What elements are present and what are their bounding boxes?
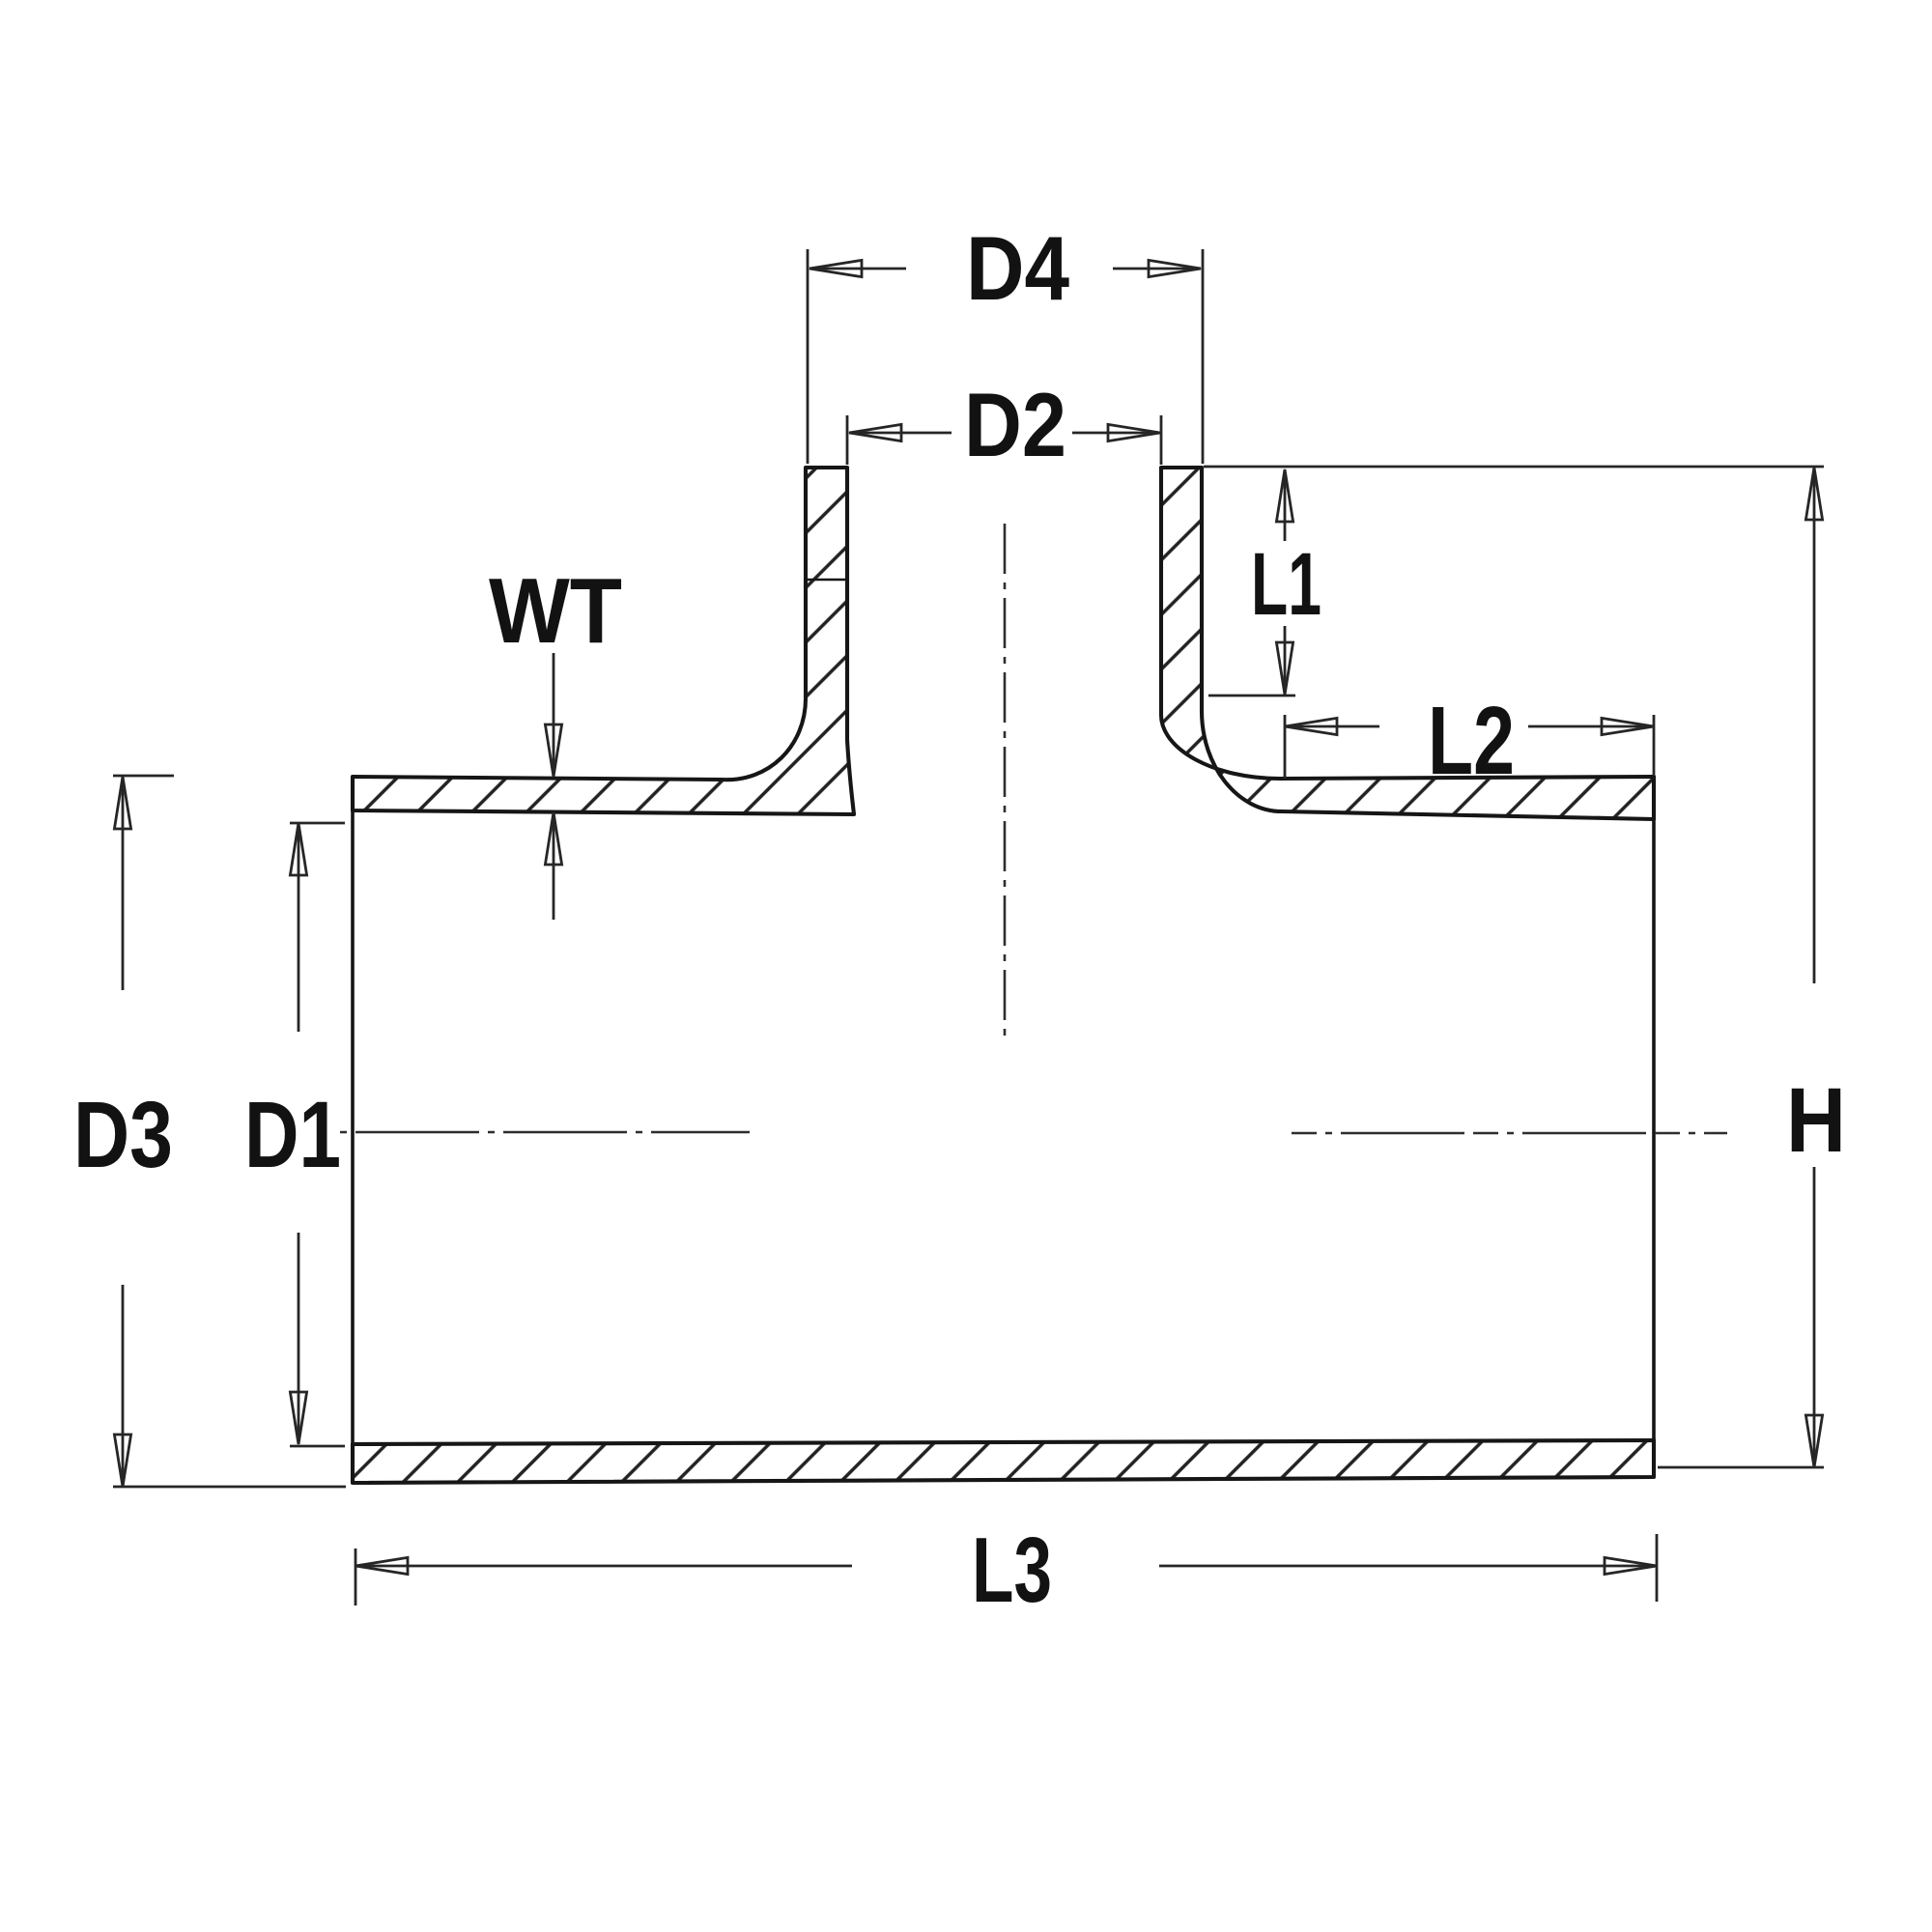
tick across left branch wall [805,579,849,581]
svg-text:D4: D4 [966,217,1069,319]
dimension H extension line bottom [1658,1466,1824,1469]
svg-text:L3: L3 [972,1519,1052,1622]
dimension D2 extension line left [846,415,849,465]
dimension D3 line + arrows [122,779,125,990]
body right end line [1652,778,1656,1477]
dimension D4 extension line left [807,249,810,464]
dimension H extension line top [1204,466,1824,469]
svg-text:D2: D2 [964,374,1066,475]
dimension D2 line + arrows [849,432,952,435]
dimension L3 extension line left [355,1548,357,1605]
svg-text:D3: D3 [73,1082,173,1187]
svg-text:L1: L1 [1251,535,1321,634]
svg-text:L2: L2 [1428,687,1515,795]
dimension L1 line + arrows [1284,471,1287,541]
tee body left section (left flange + left branch wall), hatched [353,468,854,814]
dimension H line + arrows [1813,469,1816,983]
dimension L3 line + arrows [355,1565,852,1568]
dimension D2 extension line right [1160,415,1163,465]
dimension L2 extension line right [1653,715,1656,776]
dimension D1 line + arrows [298,825,300,1032]
tee body bottom wall, hatched [353,1440,1654,1483]
dimension D1 extension line top [290,822,345,825]
dimension D4 line + arrows [810,268,906,270]
svg-text:H: H [1786,1069,1846,1172]
dimension L3 extension line right [1656,1534,1659,1602]
dimension D3 extension line top [113,775,174,778]
branch vertical centerline [1004,524,1007,1041]
dimension WT upper arrow [553,653,555,773]
body left end line [351,777,355,1483]
dimension L2 line + arrows [1285,725,1379,728]
tee body right section (right branch wall + right flange), hatched [1161,468,1216,769]
dimension D3 extension line bottom [113,1486,346,1489]
dimension L1 lower reference line [1208,695,1295,697]
svg-text:WT: WT [489,559,622,663]
dimension L2 extension line left [1284,715,1287,779]
dimension WT lower arrow [553,816,555,920]
svg-text:D1: D1 [244,1082,341,1187]
dimension D1 extension line bottom [290,1445,345,1448]
run horizontal centerline left segment [340,1131,750,1134]
dimension D4 extension line right [1202,249,1205,464]
run horizontal centerline right segment [1292,1132,1727,1135]
